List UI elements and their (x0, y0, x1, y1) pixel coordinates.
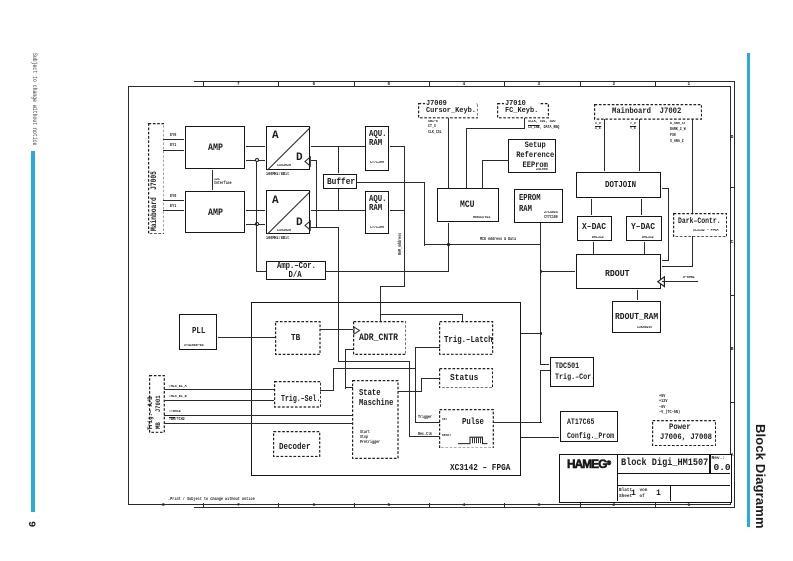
Amp.-Cor. D/A (266, 261, 326, 280)
Decoder block (dashed) (273, 431, 320, 457)
Decoder label (279, 442, 310, 452)
wire TRIG_BL_B to Trig.-Sel. (164, 400, 274, 401)
AMP2 label (208, 208, 223, 219)
wire data tap to Buffer top (338, 146, 339, 173)
MCU label (460, 200, 474, 210)
State Maschine block (dashed) (352, 380, 399, 459)
left cyan bar (31, 151, 35, 512)
acquisition RAM channel 2 (CY7C199) (365, 191, 389, 234)
wire A/D1 data out to AQU.RAM1 (311, 146, 365, 147)
left margin note 'Subject to change without notice' (rotated) (31, 53, 38, 145)
Power label line2 (660, 433, 712, 442)
AT17C65 label (567, 415, 614, 444)
Pulse waveform glyph (457, 435, 489, 445)
EEProm part 24L065 (536, 168, 548, 172)
sheet labels Blatt/Sheet (619, 488, 632, 502)
Dark-Contr. block (dashed) (673, 213, 727, 237)
wire EPROM RAM to bus / TDC501 vertical (540, 223, 541, 364)
wire J7002 Y signals to DOTJOIN (639, 119, 640, 171)
wire FPGA to AT17C65 (521, 437, 559, 438)
page number 9 (rotated) (25, 521, 37, 527)
acquisition RAM channel 1 (CY7C199) (365, 126, 389, 171)
wire FPGA edge stub to TDC vertical (521, 333, 540, 334)
X-DAC (577, 216, 612, 242)
wire PLL to TB (218, 337, 276, 338)
right margin title 'Block Diagramm' (rotated) (753, 424, 768, 529)
Y-DAC label (631, 222, 655, 231)
outer border top ruler line (194, 81, 735, 82)
rev label (712, 456, 726, 461)
connector Trig.- A/B MB J7001 (dashed) (149, 375, 165, 433)
Trig.-Latch label (444, 335, 493, 344)
TB label (291, 333, 300, 343)
title block outline (559, 454, 732, 503)
acquisition RAM channel 2 (CY7C199) label (369, 194, 387, 213)
Trig.-Sel. block (dashed) (274, 381, 321, 408)
Pulse pin label SET (442, 419, 447, 423)
right frame zone letters D C B A (731, 135, 734, 140)
RDOUT_RAM label (615, 312, 658, 321)
junction dot FPGA stub on TDC vertical (540, 332, 543, 335)
sheet total 1 (656, 489, 661, 498)
wire EY1 input to AMP1 (163, 150, 184, 151)
bus label MCU Address & Data (480, 238, 516, 242)
wire DOTJOIN to X-DAC (591, 199, 592, 215)
wire Amp.-Cor. correction line to MCU drop (326, 271, 448, 272)
wire State Maschine to Status (398, 391, 422, 392)
wire AMP2 to A/D2 upper (246, 210, 265, 211)
wire J7002 X signals to DOTJOIN (604, 119, 605, 171)
J7009 pin labels SW1-0 CT_X CLK_CSL (428, 120, 442, 137)
PLL part SY42088-64 (184, 344, 204, 348)
State Maschine label (359, 388, 393, 408)
wire RDOUT to RDOUT_RAM (637, 290, 638, 300)
wire A/D sample clock net (311, 160, 317, 161)
ADR_CNTR block (dashed) (353, 321, 407, 355)
wire Dark-Contr. to RDOUT right side (692, 236, 693, 267)
EPROM RAM parts 27C4024 CY7C199 (544, 211, 558, 221)
signal label TRIG_BL_A (169, 385, 187, 389)
right cyan bar (747, 53, 750, 527)
Pulse pin label RESET (442, 435, 451, 439)
wire AMP1 to A/D1 lower (246, 160, 265, 161)
connector J7005 vertical label (151, 171, 159, 231)
right frame zone tick marks (731, 187, 735, 188)
wire TTRACE to State Maschine (164, 415, 352, 416)
A/D ch1 caption 100MHz/8Bit (266, 173, 289, 177)
top frame zone numbers 7-1 (237, 82, 240, 87)
wire MCU address and data bus (424, 244, 541, 245)
signal label EY0 (ch2) (170, 195, 176, 199)
Amp.-Cor. D/A label (277, 262, 313, 280)
bottom frame zone tick marks (203, 503, 204, 507)
A/D converter channel 1 (CXA3026) (266, 126, 310, 170)
power supply rail labels +5V +12V -6V (659, 394, 680, 415)
Status label (450, 373, 478, 382)
A/D ch2 caption 100MHz/8Bit (266, 237, 289, 241)
bottom frame zone numbers 8-1 (162, 503, 165, 508)
wire Pulse to TDC501 lower pin (493, 422, 542, 423)
Y-DAC part DAC312 (642, 236, 654, 240)
wire TBR/TCH2 to State Maschine (164, 423, 352, 424)
top frame zone tick marks (203, 81, 204, 85)
wire link to RDOUT left (540, 271, 575, 272)
wire Buffer out to MCU data bus (357, 182, 425, 183)
footer note 'Print / Subject to change without notice' (168, 497, 255, 502)
RDOUT box with clock notch (576, 254, 662, 289)
acquisition RAM channel 1 (CY7C199) label (369, 129, 387, 148)
wire EY0 input to AMP2 (163, 200, 184, 201)
acquisition RAM channel 1 (CY7C199) part CY7C199 (370, 161, 384, 165)
wire bus vertical into TDC501 upper pin (540, 364, 549, 365)
wire AMP1 to A/D1 upper (246, 146, 265, 147)
TB to ADR_CNTR wire with arrowhead (320, 329, 353, 330)
title block divider row2 (617, 485, 730, 486)
Power J7006 J7008 connector (dashed) (652, 420, 716, 446)
junction node on AMP1 lower line (255, 158, 259, 162)
wire DOTJOIN right to RDOUT right side (662, 188, 668, 189)
wire ADR_CNTR to State Maschine link (345, 349, 353, 350)
I2C Interface label (214, 178, 232, 187)
amplifier AMP channel 2 (185, 191, 245, 234)
Buffer (323, 174, 357, 189)
X-DAC label (582, 222, 606, 231)
MCU part HD6437021 (473, 216, 491, 220)
title text Block Digi_HM1507 (621, 459, 708, 469)
EPROM RAM (27C4024 CY7C199) (514, 189, 564, 223)
TDC501 Trig.-Cor. (550, 357, 594, 387)
Pulse label (462, 417, 484, 426)
AMP1 label (208, 143, 223, 154)
signal label TTRACE (169, 410, 181, 414)
connector J7001 vertical label line1 (147, 396, 154, 430)
connector J7010 FC_Keyb. (dashed) (497, 103, 549, 118)
signal label Rec.Clk (418, 433, 432, 437)
junction dot MCU bus / MCU drop (447, 243, 450, 246)
acquisition RAM channel 2 (CY7C199) part CY7C199 (370, 226, 384, 230)
wire Trig.-Sel. to trigger net (320, 390, 334, 391)
wire AQU.RAM outputs to RAM address bus (390, 146, 405, 147)
J7010 pin labels SCLK SDI SDO / CS_INE DATA_REQ (528, 120, 559, 131)
Power label (669, 423, 691, 432)
junction dot bus to TDC vertical (540, 270, 543, 273)
wire RAM address bus into FPGA / ADR_CNTR (380, 286, 405, 287)
wire X-DAC to RDOUT (593, 242, 594, 254)
wire RAM address branch to Trig.-Latch top (380, 314, 462, 315)
title block divider left cell (617, 455, 619, 501)
J7002 pin labels D_ANA_XY DARK_X_W FS0 S_ANA_Z (670, 122, 686, 145)
wire I2C interface link between AMP1 and AMP2 (212, 170, 213, 190)
J7002 pin labels X_O X_E (595, 122, 601, 132)
wire Buffer bottom to ch2 data line (338, 189, 339, 210)
Setup Reference EEProm (24L065) (508, 139, 556, 174)
wire EY1 input to AMP2 (163, 210, 184, 211)
sheet number 1 (631, 489, 636, 498)
connector Mainboard J7002 (dashed) (594, 104, 702, 120)
Pulse block (dashed) (439, 409, 494, 449)
wire trigger net vertical to Trig.-Latch and Pulse SET (415, 347, 416, 423)
wire TRIG_BL_A to Trig.-Sel. (164, 389, 274, 390)
DOTJOIN label (605, 180, 636, 190)
amplifier AMP channel 1 (185, 126, 245, 169)
connector J7001 vertical label line2 (155, 395, 162, 429)
PLL (SY42088-64) (179, 314, 217, 350)
RDOUT_RAM part CXK58257 (637, 326, 653, 330)
DOTJOIN (576, 172, 662, 199)
title block divider rev cell (709, 455, 710, 474)
MCU (HD6437021) (437, 188, 499, 222)
HAMEG logo (567, 459, 610, 471)
sheet labels von/of (640, 488, 648, 502)
wire RDOUT clock stub (662, 281, 698, 282)
connector J7009 Cursor_Keyb. (dashed) (418, 103, 479, 118)
outer border bottom ruler line (194, 507, 735, 508)
title block divider row1 (617, 473, 730, 474)
RAM_Address bus label (rotated) (399, 233, 403, 255)
rev value (714, 462, 731, 473)
signal label EY0 (ch1) (170, 134, 176, 138)
A/D converter channel 2 (CXA3026) (266, 190, 310, 234)
PLL label (192, 327, 205, 336)
outer border right line (734, 81, 735, 508)
wire AMP2 to A/D2 lower (246, 224, 265, 225)
FPGA XC3142 outline (251, 302, 521, 475)
RDOUT label (605, 269, 630, 279)
wire Amp.-Cor. feedback to AMP input junctions (256, 162, 257, 272)
wire J7010 to MCU (524, 118, 525, 129)
wire EY0 input to AMP1 (163, 139, 184, 140)
junction node on AMP2 lower line (255, 222, 259, 226)
inner drawing frame (128, 86, 732, 506)
Y-DAC (626, 216, 662, 242)
RDOUT clock label 0-80Hz (683, 276, 695, 280)
wire A/D2 data out to AQU.RAM2 (311, 210, 365, 211)
J7002 pin labels Y_O Y_E (630, 122, 636, 132)
wire J7002 dark/analog signals down (692, 119, 693, 213)
wire EEProm to MCU (482, 160, 509, 161)
Trig.-Latch block (dashed) (439, 321, 493, 355)
Status block (dashed) (439, 368, 493, 389)
AT17C65 Config._Prom (560, 411, 617, 442)
Dark-Contr. part number XC3142-FPGA (693, 229, 718, 233)
signal label TRIG_BL_B (169, 395, 187, 399)
Trig.-Sel. label (281, 395, 320, 404)
connector Mainboard J7005 (dashed) (148, 123, 165, 234)
connector J7009 label (425, 101, 477, 116)
RDOUT_RAM (CXK58257) (612, 301, 661, 333)
title block divider sheet cell (670, 486, 671, 501)
wire DOTJOIN to Y-DAC (641, 199, 642, 215)
FPGA label XC3142 - FPGA (450, 464, 510, 473)
Dark-Contr. label (678, 217, 721, 226)
signal label Trigger (418, 416, 432, 420)
ADR_CNTR label (359, 333, 398, 343)
wire J7009 to MCU (448, 118, 449, 188)
EPROM RAM label (519, 193, 541, 214)
X-DAC part DAC312 (592, 236, 604, 240)
connector J7010 label (504, 101, 539, 116)
EEProm label (510, 141, 560, 170)
wire Y-DAC to RDOUT (644, 242, 645, 254)
wire MCU to bus and Amp.-Cor. line (448, 223, 449, 272)
TDC501 label (555, 361, 595, 384)
signal label EY1 (ch2) (170, 205, 176, 209)
TB block (dashed) (275, 321, 321, 355)
connector J7002 label (612, 107, 681, 116)
signal label EY1 (ch1) (170, 144, 176, 148)
State Maschine sub-labels Start Stop Pretrigger (360, 430, 380, 446)
signal label TBR/TCH2 (169, 418, 185, 422)
Buffer label (327, 177, 355, 186)
